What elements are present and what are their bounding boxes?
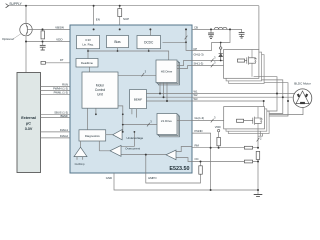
wire phase W1 (192, 93, 294, 95)
svg-text:RM: RM (195, 143, 200, 147)
low-side MOSFET bank (stacked) (224, 107, 269, 134)
wire U3 output to U2 (121, 154, 166, 156)
wire OC external (192, 161, 258, 163)
wire BEMF stub right (136, 109, 138, 118)
transistor Q2 high-side NMOS (246, 57, 248, 63)
svg-text:DCDC: DCDC (144, 41, 154, 45)
phase lines to motor (192, 94, 303, 115)
svg-text:Motor: Motor (96, 84, 105, 88)
wire shunt to ground (257, 159, 259, 194)
wire U1 output to Diagnostics (106, 134, 113, 136)
wire VDD line (26, 41, 77, 43)
svg-text:SH(1-3): SH(1-3) (194, 61, 204, 65)
fuse F1 on SUP (118, 9, 122, 17)
resistor R5 on RM line (244, 146, 252, 149)
block Motor Control Unit (82, 72, 118, 108)
svg-text:SUP: SUP (123, 17, 129, 21)
svg-text:RUN: RUN (62, 83, 68, 87)
wire gate node HS (245, 60, 247, 62)
svg-text:GL(1-3): GL(1-3) (195, 116, 205, 120)
transistor Q3 low-side NMOS (252, 118, 254, 124)
node LS feed tap (122, 124, 124, 126)
resistor R4 (217, 137, 221, 145)
block BEMF (130, 90, 147, 109)
bus slash PWMH (71, 89, 74, 93)
svg-text:DIAG1: DIAG1 (60, 128, 69, 132)
wire RUN (41, 86, 83, 88)
terminal VDD circle (217, 129, 219, 131)
wire U2 input tap (121, 132, 134, 146)
wire EN drop (93, 6, 95, 37)
block LS Drive (stacked) (157, 114, 179, 137)
svg-text:Bias: Bias (114, 40, 121, 44)
node supply input chevron (6, 4, 9, 8)
block DCDC (137, 36, 161, 49)
block Bias (107, 36, 129, 48)
buffer U4 current limit (74, 147, 87, 156)
wire HMPO pin bottom (146, 173, 201, 183)
resistor R7 shunt (256, 151, 260, 159)
wire LinReg to Deadtime (87, 49, 89, 59)
wire GH external (192, 60, 238, 62)
svg-text:BLDC Motor: BLDC Motor (294, 81, 311, 85)
wire HS bootstrap stub 1 (159, 83, 161, 94)
IC E523.50 main block (70, 25, 192, 173)
wire DIAG2 (41, 137, 80, 139)
wire supply rail top (9, 5, 259, 7)
bus slash MCU-LS with 3 (147, 123, 150, 127)
wire SH external (192, 65, 251, 67)
wire HS bootstrap stub 2 (163, 83, 165, 98)
svg-text:Currlimp: Currlimp (75, 162, 85, 166)
wire phase W2 (192, 96, 293, 98)
wire C2 stub (210, 29, 212, 32)
wire supply to Q1 emitter (25, 6, 27, 24)
ground main (254, 195, 263, 197)
wire VDD to R4 (218, 132, 220, 148)
wire SBUS (41, 113, 132, 115)
svg-text:OC: OC (195, 157, 199, 161)
external microcontroller box (17, 73, 41, 173)
svg-text:DIAG2: DIAG2 (60, 134, 69, 138)
gate resistor R2 (238, 59, 245, 62)
wire GND pin bottom (114, 173, 258, 190)
bus slash GH (211, 59, 214, 63)
wire HS Drive to GH pin (177, 61, 192, 66)
svg-text:HS Drive: HS Drive (161, 70, 173, 74)
svg-text:Unit: Unit (97, 93, 103, 97)
diode body HS (252, 58, 255, 63)
high-side MOSFET bank (stacked) (224, 50, 265, 84)
wire PGND external (192, 133, 211, 190)
svg-text:LS Drive: LS Drive (161, 119, 172, 123)
bus slash GL (211, 119, 214, 123)
inductor L1 (214, 27, 227, 29)
svg-text:W1: W1 (194, 89, 198, 93)
svg-text:EN: EN (96, 17, 100, 21)
wire BEMF out (41, 117, 137, 119)
wire PWML (41, 93, 83, 95)
wire phase W3 (192, 101, 303, 115)
svg-text:VBSW: VBSW (55, 25, 64, 29)
wire DT deadtime setting (41, 62, 77, 64)
wire RM external (192, 147, 258, 149)
wire MCU stub to Diagnostics (87, 108, 89, 130)
wire C2-CP link (192, 29, 230, 50)
bus slash PWML (71, 93, 74, 97)
resistor R6 on OC line (244, 160, 252, 163)
wire MCU stub down (95, 108, 97, 114)
svg-text:Optional: Optional (2, 37, 14, 41)
wire DCDC to CP (163, 41, 187, 43)
resistor R9 on DT line (41, 61, 45, 64)
svg-text:Undervoltage: Undervoltage (127, 136, 144, 140)
wire regulator output bus (88, 51, 169, 61)
wire HS Drive to SH pin (177, 66, 192, 69)
bus slash source 2 (257, 138, 260, 142)
motor M1 BLDC (293, 89, 312, 108)
wire DCDC output stub (148, 49, 150, 51)
svg-text:GND: GND (106, 176, 112, 180)
wire Deadtime to MCU (89, 67, 91, 72)
wire HMPO internal drop (145, 155, 147, 173)
svg-text:DT: DT (60, 58, 64, 62)
wire rail stub to DCDC (149, 29, 151, 35)
wire LS sources merge (258, 129, 263, 148)
capacitor C3 with ground (239, 33, 245, 38)
block HS Drive (stacked) (156, 60, 179, 85)
resistor R8 (199, 166, 203, 174)
svg-text:SUPPLY: SUPPLY (9, 2, 22, 6)
svg-text:Control: Control (95, 88, 106, 92)
wire R8 to OC line (200, 162, 202, 166)
wire supply feed right down (258, 6, 260, 50)
wire gate node LS (244, 120, 253, 122)
gate resistor R3 (237, 119, 244, 122)
capacitor C2 with ground (208, 33, 214, 38)
wire phase W3 internal (146, 100, 192, 102)
svg-text:BEMF: BEMF (61, 114, 69, 118)
wire Diagnostics to current limiter (80, 141, 82, 147)
wire GL pin from LS Drive (177, 119, 192, 121)
svg-text:VDD: VDD (56, 38, 63, 42)
svg-text:PWML (1-3): PWML (1-3) (54, 91, 68, 95)
bus slash CP (185, 36, 188, 40)
wire phase W1 internal (146, 93, 192, 95)
wire Q1 collector down to uC supply (25, 36, 27, 73)
wire DIAG1 (41, 131, 158, 133)
svg-text:GH(1-3): GH(1-3) (194, 53, 204, 57)
resistor R1 (41, 31, 45, 39)
wire vertical into U1 input (122, 114, 124, 132)
wire SUP drop (119, 6, 121, 36)
svg-text:Deadtime: Deadtime (81, 61, 93, 65)
wire phase W2 internal (146, 96, 192, 98)
wire Diagnostics to U2 output (99, 141, 110, 151)
diode body LS (258, 118, 261, 123)
svg-text:CB: CB (194, 25, 198, 29)
wire CB external (192, 29, 242, 32)
transistor Q1 reverse-polarity PNP (20, 23, 32, 35)
wire VBSW: Q1 base to IC (continues as internal rail) (27, 28, 192, 30)
svg-text:PGND: PGND (195, 129, 203, 133)
svg-text:VDD: VDD (215, 125, 221, 129)
wire BEMF stub left (131, 109, 133, 115)
block Deadtime (76, 59, 98, 68)
svg-text:µC: µC (26, 122, 31, 126)
comparator U3 sense (166, 150, 176, 160)
wire CP jog (186, 29, 192, 50)
bus slash MCU-HS with 3 (142, 73, 145, 77)
svg-text:Diagnostics: Diagnostics (85, 134, 100, 138)
svg-text:HMPO: HMPO (148, 176, 157, 180)
wire MCU to LS Drive bus (118, 106, 157, 125)
svg-text:PWMH (1-3): PWMH (1-3) (53, 87, 68, 91)
bus slash SH (211, 64, 214, 68)
wire HS bootstrap stub 3 (166, 83, 168, 102)
wire R1 cap stub / C1 (42, 42, 44, 46)
svg-text:Lin. Reg.: Lin. Reg. (82, 42, 93, 46)
zener D1 gate clamp (219, 43, 223, 61)
svg-text:BEMF: BEMF (134, 98, 143, 102)
wire PWMH (41, 89, 83, 91)
wire half-bridge node 1 (254, 77, 288, 116)
svg-text:Overcurrent: Overcurrent (125, 147, 140, 151)
wire U3 input OC jog (176, 158, 192, 162)
regulator block 3.3V Lin. Reg. (77, 36, 100, 49)
capacitor C1 with ground (40, 45, 46, 50)
wire MCU to HS Drive bus (118, 75, 156, 77)
wire GL external (192, 119, 237, 121)
block Diagnostics (79, 130, 106, 141)
wire U3 input RM jog (176, 147, 192, 152)
comparator U2 overcurrent (110, 145, 121, 156)
wire Bias output stub (117, 48, 119, 51)
svg-text:E523.50: E523.50 (169, 166, 189, 172)
comparator U1 undervoltage (113, 130, 122, 140)
svg-text:External: External (21, 116, 36, 120)
svg-text:3.3V: 3.3V (25, 127, 33, 131)
